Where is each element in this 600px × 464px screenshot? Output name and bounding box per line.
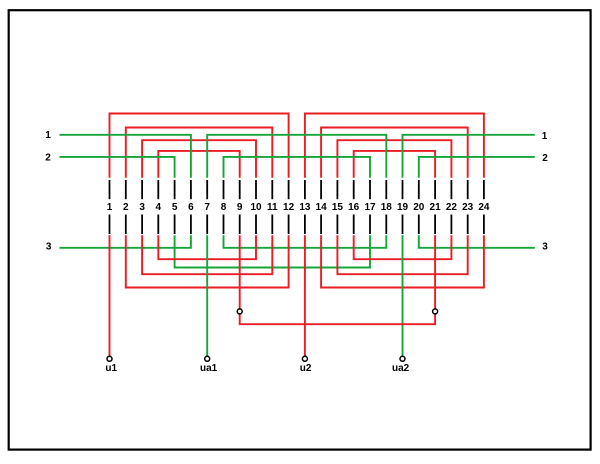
wire: coil side 1 to 12 top end-turn (red) [110,114,289,178]
wire: coil side 3 to 10 top end-turn (red) [142,140,256,178]
slot 12 conductor (lower tick) [288,215,290,235]
slot 16 conductor (lower tick) [353,215,355,235]
wire: lead 1 left to slot 6 top (green) [60,135,191,178]
slot 1 conductor (upper tick) [109,180,111,199]
svg-text:4: 4 [156,202,162,213]
svg-text:2: 2 [542,153,548,164]
wire: slot 8 bottom to slot 18 bottom (green) [224,235,387,248]
slot 3 conductor (lower tick) [141,215,143,235]
wire: coil side 16 to 21 top end-turn (red) [354,151,435,178]
svg-text:9: 9 [237,202,243,213]
slot 5 conductor (lower tick) [174,215,176,235]
slot 2 conductor (lower tick) [125,215,127,235]
svg-text:1: 1 [542,131,548,142]
svg-text:23: 23 [462,202,474,213]
svg-text:17: 17 [364,202,376,213]
slot 15 conductor (upper tick) [336,180,338,199]
slot 8 conductor (lower tick) [223,215,225,235]
terminal ua1 (open circle) [205,356,210,361]
svg-text:15: 15 [332,202,344,213]
slot 23 conductor (upper tick) [467,180,469,199]
svg-text:3: 3 [139,202,145,213]
terminal ua2 (open circle) [400,356,405,361]
slot 10 conductor (upper tick) [255,180,257,199]
svg-text:u1: u1 [105,363,117,374]
svg-text:10: 10 [250,202,262,213]
slot 4 conductor (upper tick) [157,180,159,199]
slot 24 conductor (lower tick) [483,215,485,235]
slot 19 conductor (upper tick) [402,180,404,199]
slot 16 conductor (upper tick) [353,180,355,199]
slot 11 conductor (upper tick) [271,180,273,199]
slot 20 conductor (lower tick) [418,215,420,235]
slot 18 conductor (upper tick) [385,180,387,199]
slot 23 conductor (lower tick) [467,215,469,235]
wire: coil side 16 to 22 bottom end-turn (red) [354,235,452,259]
svg-text:18: 18 [381,202,393,213]
slot 15 conductor (lower tick) [336,215,338,235]
svg-text:7: 7 [204,202,210,213]
wire: coil side 15 to 23 bottom end-turn (red) [337,235,467,274]
wire: coil side 15 to 22 top end-turn (red) [337,140,451,178]
svg-text:12: 12 [283,202,295,213]
slot 6 conductor (upper tick) [190,180,192,199]
slot 9 conductor (upper tick) [239,180,241,199]
wire: slot 7 bottom to terminal ua1 (green) [206,235,208,356]
svg-text:24: 24 [478,202,490,213]
slot 24 conductor (upper tick) [483,180,485,199]
node B (junction circle) [433,309,438,314]
slot 1 conductor (lower tick) [109,215,111,235]
wire: slot 20 top to lead 2 right (green) [419,157,535,178]
slot 13 conductor (upper tick) [304,180,306,199]
slot 17 conductor (upper tick) [369,180,371,199]
slot 12 conductor (upper tick) [288,180,290,199]
wire: slot 19 bottom to terminal ua2 (green) [402,235,404,356]
slot 19 conductor (lower tick) [402,215,404,235]
wire: slot 5 bottom to slot 17 bottom (green) [175,235,370,267]
wire: slot 7 top to slot 18 top (green) [207,135,386,178]
wire: lead 3 left to slot 6 bottom (green) [60,235,191,248]
slot 21 conductor (lower tick) [434,215,436,235]
wire: lead 2 left to slot 5 top (green) [60,157,175,178]
svg-text:11: 11 [267,202,278,213]
slot 3 conductor (upper tick) [141,180,143,199]
slot 2 conductor (upper tick) [125,180,127,199]
wire: coil side 4 to 9 top end-turn (red) [158,151,239,178]
svg-text:5: 5 [172,202,178,213]
wire: slot 8 top to slot 17 top (green) [224,157,371,178]
slot 7 conductor (lower tick) [206,215,208,235]
wire: node A to node B jumper (red) [240,314,435,324]
terminal u2 (open circle) [302,356,307,361]
svg-text:8: 8 [221,202,227,213]
svg-text:2: 2 [123,202,129,213]
svg-text:21: 21 [430,202,442,213]
slot 22 conductor (lower tick) [450,215,452,235]
slot 4 conductor (lower tick) [157,215,159,235]
svg-text:u2: u2 [300,363,312,374]
svg-text:14: 14 [316,202,328,213]
wire: coil side 2 to 12 bottom end-turn (red) [126,235,289,287]
slot 14 conductor (upper tick) [320,180,322,199]
wire: slot 9 bottom to node A (red) [239,235,241,309]
wire: coil side 14 to 23 top end-turn (red) [321,128,468,178]
slot 5 conductor (upper tick) [174,180,176,199]
wire: coil side 3 to 11 bottom end-turn (red) [142,235,272,274]
slot 7 conductor (upper tick) [206,180,208,199]
wire: slot 21 bottom to node B (red) [434,235,436,309]
terminal u1 (open circle) [107,356,112,361]
wire: slot 19 top to lead 1 right (green) [403,135,535,178]
svg-text:2: 2 [45,152,51,163]
svg-text:3: 3 [46,242,52,253]
wire: slot 1 bottom to terminal u1 (red) [109,235,111,356]
slot 13 conductor (lower tick) [304,215,306,235]
svg-text:ua2: ua2 [392,363,410,374]
svg-text:20: 20 [413,202,425,213]
slot 17 conductor (lower tick) [369,215,371,235]
slot 18 conductor (lower tick) [385,215,387,235]
slot 22 conductor (upper tick) [450,180,452,199]
svg-text:6: 6 [188,202,194,213]
slot 14 conductor (lower tick) [320,215,322,235]
slot 11 conductor (lower tick) [271,215,273,235]
svg-text:1: 1 [107,202,113,213]
slot 21 conductor (upper tick) [434,180,436,199]
slot 8 conductor (upper tick) [223,180,225,199]
wire: coil side 13 to 24 top end-turn (red) [305,114,484,178]
svg-text:ua1: ua1 [200,363,218,374]
wire: slot 20 bottom to lead 3 right (green) [419,235,535,248]
svg-text:13: 13 [299,202,311,213]
slot 10 conductor (lower tick) [255,215,257,235]
slot 20 conductor (upper tick) [418,180,420,199]
slot 9 conductor (lower tick) [239,215,241,235]
wire: coil side 14 to 24 bottom end-turn (red) [321,235,484,287]
node A (junction circle) [237,309,242,314]
svg-text:19: 19 [397,202,409,213]
svg-text:16: 16 [348,202,360,213]
svg-text:3: 3 [542,242,548,253]
svg-text:1: 1 [45,130,51,141]
wire: slot 13 bottom to terminal u2 (red) [304,235,306,356]
wire: coil side 4 to 10 bottom end-turn (red) [158,235,256,259]
slot 6 conductor (lower tick) [190,215,192,235]
wire: coil side 2 to 11 top end-turn (red) [126,128,272,178]
svg-text:22: 22 [446,202,458,213]
